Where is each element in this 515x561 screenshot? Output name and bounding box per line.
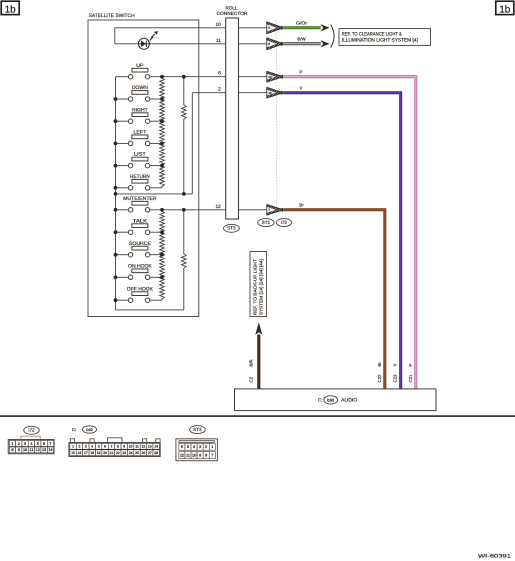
svg-text:28: 28 bbox=[154, 451, 158, 455]
svg-text:26: 26 bbox=[141, 451, 145, 455]
svg-text:8: 8 bbox=[117, 445, 119, 449]
svg-text:9: 9 bbox=[199, 453, 201, 457]
svg-text:4: 4 bbox=[193, 445, 195, 449]
svg-text:B/R: B/R bbox=[248, 359, 253, 366]
svg-text:C22: C22 bbox=[377, 374, 382, 382]
svg-text:24: 24 bbox=[129, 451, 133, 455]
svg-text:ON HOOK: ON HOOK bbox=[128, 263, 152, 269]
svg-text:4: 4 bbox=[30, 442, 32, 446]
svg-text:LIST: LIST bbox=[134, 152, 146, 158]
svg-text:4: 4 bbox=[91, 445, 93, 449]
svg-text:i192: i192 bbox=[327, 398, 334, 402]
svg-text:14: 14 bbox=[154, 445, 158, 449]
svg-text:ROLL: ROLL bbox=[225, 6, 237, 11]
svg-text:OFF HOOK: OFF HOOK bbox=[127, 286, 154, 292]
svg-text:REF. TO BACK-UP LIGHT: REF. TO BACK-UP LIGHT bbox=[253, 259, 258, 315]
svg-text:8: 8 bbox=[11, 448, 13, 452]
svg-text:5: 5 bbox=[187, 445, 189, 449]
svg-text:3: 3 bbox=[24, 442, 26, 446]
svg-text:6: 6 bbox=[181, 445, 183, 449]
svg-text:7: 7 bbox=[268, 208, 270, 212]
svg-text:11: 11 bbox=[29, 448, 33, 452]
svg-text:25: 25 bbox=[135, 451, 139, 455]
svg-text:10: 10 bbox=[192, 453, 196, 457]
svg-text:2: 2 bbox=[218, 87, 221, 93]
svg-text:ST1: ST1 bbox=[262, 220, 271, 225]
svg-text:C:: C: bbox=[72, 427, 76, 432]
svg-text:WI-60391: WI-60391 bbox=[478, 553, 511, 559]
svg-text:11: 11 bbox=[216, 38, 221, 44]
svg-text:i72: i72 bbox=[28, 428, 35, 433]
svg-text:2: 2 bbox=[205, 445, 207, 449]
svg-text:RIGHT: RIGHT bbox=[132, 107, 148, 113]
svg-text:10: 10 bbox=[129, 445, 133, 449]
svg-text:C:: C: bbox=[318, 398, 323, 403]
svg-text:C23: C23 bbox=[393, 374, 398, 382]
svg-text:7: 7 bbox=[211, 453, 213, 457]
svg-text:ST3: ST3 bbox=[193, 427, 202, 432]
svg-text:REF. TO CLEARANCE LIGHT &: REF. TO CLEARANCE LIGHT & bbox=[342, 31, 403, 37]
svg-text:13: 13 bbox=[148, 445, 152, 449]
svg-text:22: 22 bbox=[116, 451, 120, 455]
svg-text:1b: 1b bbox=[5, 4, 17, 15]
svg-text:10: 10 bbox=[268, 91, 272, 95]
svg-text:3: 3 bbox=[85, 445, 87, 449]
svg-text:i72: i72 bbox=[281, 220, 288, 225]
svg-text:6: 6 bbox=[218, 71, 221, 77]
svg-text:15: 15 bbox=[71, 451, 75, 455]
svg-text:ST3: ST3 bbox=[227, 226, 236, 231]
svg-text:G/Or: G/Or bbox=[296, 21, 308, 26]
svg-text:8: 8 bbox=[205, 453, 207, 457]
svg-text:P: P bbox=[299, 69, 302, 74]
svg-text:17: 17 bbox=[84, 451, 88, 455]
svg-text:Br: Br bbox=[377, 362, 382, 367]
svg-text:27: 27 bbox=[148, 451, 152, 455]
svg-text:UP: UP bbox=[136, 63, 144, 69]
svg-text:16: 16 bbox=[78, 451, 82, 455]
svg-text:9: 9 bbox=[18, 448, 20, 452]
svg-text:MUTE/ENTER: MUTE/ENTER bbox=[123, 196, 157, 202]
svg-text:RETURN: RETURN bbox=[130, 174, 150, 180]
svg-text:DOWN: DOWN bbox=[132, 85, 148, 91]
svg-text:10: 10 bbox=[215, 22, 221, 28]
svg-text:1: 1 bbox=[72, 445, 74, 449]
svg-text:AUDIO: AUDIO bbox=[341, 398, 357, 403]
svg-text:12: 12 bbox=[215, 204, 221, 210]
svg-text:10: 10 bbox=[23, 448, 27, 452]
svg-text:Br: Br bbox=[299, 202, 304, 207]
svg-text:18: 18 bbox=[90, 451, 94, 455]
svg-text:C21: C21 bbox=[408, 374, 413, 382]
svg-text:SOURCE: SOURCE bbox=[129, 241, 152, 247]
svg-text:2: 2 bbox=[79, 445, 81, 449]
svg-text:9: 9 bbox=[123, 445, 125, 449]
svg-text:i192: i192 bbox=[86, 428, 93, 432]
svg-text:3: 3 bbox=[199, 445, 201, 449]
svg-text:1: 1 bbox=[11, 442, 13, 446]
svg-text:21: 21 bbox=[110, 451, 114, 455]
svg-text:12: 12 bbox=[180, 453, 184, 457]
svg-text:6: 6 bbox=[104, 445, 106, 449]
svg-text:13: 13 bbox=[42, 448, 46, 452]
svg-text:19: 19 bbox=[97, 451, 101, 455]
svg-text:5: 5 bbox=[268, 26, 270, 30]
svg-text:6: 6 bbox=[43, 442, 45, 446]
svg-text:5: 5 bbox=[37, 442, 39, 446]
svg-text:14: 14 bbox=[268, 75, 272, 79]
svg-text:14: 14 bbox=[48, 448, 52, 452]
svg-text:12: 12 bbox=[36, 448, 40, 452]
svg-text:1: 1 bbox=[211, 445, 213, 449]
svg-text:V: V bbox=[393, 364, 398, 367]
svg-text:5: 5 bbox=[98, 445, 100, 449]
svg-text:6: 6 bbox=[268, 42, 270, 46]
svg-text:TALK: TALK bbox=[133, 218, 148, 224]
svg-text:B/W: B/W bbox=[297, 37, 306, 42]
svg-text:ILLUMINATION LIGHT SYSTEM [4]: ILLUMINATION LIGHT SYSTEM [4] bbox=[342, 38, 419, 44]
svg-text:CONNECTOR: CONNECTOR bbox=[217, 11, 249, 16]
svg-text:C2: C2 bbox=[248, 376, 253, 382]
svg-text:P: P bbox=[408, 364, 413, 367]
svg-text:LEFT: LEFT bbox=[133, 130, 146, 136]
svg-text:20: 20 bbox=[103, 451, 107, 455]
svg-text:SYSTEM [14] [24] [34] [44]: SYSTEM [14] [24] [34] [44] bbox=[259, 259, 264, 315]
svg-text:11: 11 bbox=[135, 445, 139, 449]
svg-text:23: 23 bbox=[122, 451, 126, 455]
svg-text:7: 7 bbox=[49, 442, 51, 446]
svg-text:2: 2 bbox=[18, 442, 20, 446]
svg-text:V: V bbox=[300, 85, 303, 90]
svg-text:1b: 1b bbox=[499, 4, 511, 15]
svg-text:12: 12 bbox=[141, 445, 145, 449]
svg-text:11: 11 bbox=[186, 453, 190, 457]
svg-text:SATELLITE SWITCH: SATELLITE SWITCH bbox=[89, 13, 135, 19]
svg-text:7: 7 bbox=[110, 445, 112, 449]
